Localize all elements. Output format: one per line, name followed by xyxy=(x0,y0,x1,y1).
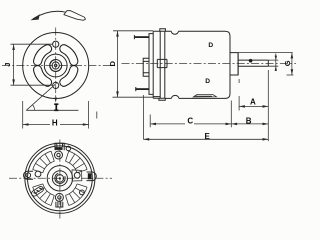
rear hub circles xyxy=(47,166,72,191)
front mounting screw hole top xyxy=(53,41,59,47)
brush cap xyxy=(143,58,149,76)
vent slot SW xyxy=(38,70,48,83)
svg-text:H: H xyxy=(52,119,58,128)
rear screw top xyxy=(55,151,63,159)
svg-text:B: B xyxy=(246,116,252,125)
rotation direction curved arrow xyxy=(30,11,85,21)
can right edge xyxy=(229,36,231,94)
rear brush hole right xyxy=(72,170,82,181)
rear stamp oval SW xyxy=(31,185,45,197)
shaft dia extension lines xyxy=(268,60,278,66)
extension line brush cap xyxy=(142,95,144,139)
rear hatch ring lines xyxy=(33,151,87,205)
front hub circles xyxy=(44,54,67,77)
front view vertical center line xyxy=(55,28,57,101)
vent slot NE xyxy=(64,49,74,62)
rear screw bottom xyxy=(55,193,63,201)
rear small hole NE xyxy=(66,146,71,151)
small shaft dia dimension xyxy=(275,54,277,72)
svg-text:D: D xyxy=(208,42,213,49)
label I xyxy=(54,104,58,110)
rear outer circle xyxy=(25,143,95,213)
angle annotation diagonal xyxy=(26,83,56,110)
motor can body xyxy=(165,31,230,98)
can flange verticals xyxy=(160,31,165,98)
dimension J xyxy=(3,44,52,85)
endbell cap section xyxy=(149,34,153,95)
angle annotation arc xyxy=(33,105,35,111)
rear right terminal tab xyxy=(87,172,97,181)
rear view horizontal center line xyxy=(9,177,112,179)
rear view vertical center line xyxy=(59,140,61,219)
svg-text:J: J xyxy=(3,63,12,67)
bottom notch xyxy=(172,95,179,98)
side view center line xyxy=(122,62,297,64)
front view outer circle xyxy=(23,33,89,99)
small rect on flange center xyxy=(157,59,167,67)
crimp tab bottom xyxy=(159,98,165,100)
stamped rib bottom of can xyxy=(193,94,216,97)
svg-text:G: G xyxy=(283,60,292,66)
extension line boss face xyxy=(238,79,240,111)
extension line endbell face xyxy=(149,115,151,128)
angle annotation base line xyxy=(26,109,78,111)
rear left terminal tab xyxy=(24,171,34,179)
rear small hole SE xyxy=(80,190,85,195)
crimp tab top xyxy=(160,29,166,31)
svg-text:C: C xyxy=(187,117,193,126)
front mounting screw hole bottom xyxy=(53,82,59,88)
dimension B xyxy=(231,116,268,125)
endbell main section xyxy=(153,31,165,98)
bearing boss xyxy=(230,53,238,75)
center line end arrow xyxy=(54,98,57,103)
dimension C xyxy=(150,117,231,126)
vent slot NW xyxy=(38,49,48,62)
rear bottom tab xyxy=(56,202,63,207)
front view horizontal center line xyxy=(2,65,110,67)
extension line shaft tip xyxy=(267,70,269,141)
svg-text:D: D xyxy=(205,78,210,85)
svg-text:D: D xyxy=(108,61,117,67)
rear brush hole left xyxy=(35,171,41,177)
vent slot SE xyxy=(64,70,74,83)
extension line can right xyxy=(230,101,232,128)
dimension G xyxy=(239,53,294,75)
dimension A xyxy=(239,98,268,108)
dimension D (left) xyxy=(108,31,153,97)
rear rim circle xyxy=(28,146,93,211)
terminal top xyxy=(134,35,150,39)
short tick right of H xyxy=(96,112,98,119)
dot on shaft xyxy=(249,59,253,63)
top notch xyxy=(171,31,178,34)
dimension E xyxy=(143,132,268,141)
svg-text:A: A xyxy=(250,98,256,107)
rear top tab xyxy=(55,143,64,150)
shaft xyxy=(238,60,268,66)
svg-text:E: E xyxy=(205,132,211,141)
dimension H xyxy=(23,101,89,129)
terminal bottom xyxy=(135,87,149,91)
rear hatch ring arcs xyxy=(33,151,87,205)
